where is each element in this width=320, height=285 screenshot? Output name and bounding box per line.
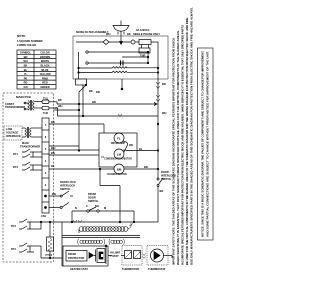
svg-text:BN: BN <box>129 143 133 147</box>
svg-text:BN: BN <box>52 192 56 196</box>
svg-text:SINGLE PHASE ONLY: SINGLE PHASE ONLY <box>133 32 160 36</box>
low voltage sub box <box>4 126 22 140</box>
svg-text:2.WIRE COLOR: 2.WIRE COLOR <box>17 43 36 47</box>
svg-text:BM: BM <box>117 167 122 171</box>
svg-text:1.SQUARE NUMBER:: 1.SQUARE NUMBER: <box>17 39 43 43</box>
NF internal wires <box>78 42 159 79</box>
TH2 <box>42 106 49 110</box>
svg-text:DRUM: DRUM <box>88 192 96 196</box>
svg-text:BK: BK <box>24 64 28 68</box>
svg-text:GREEN: GREEN <box>40 85 49 89</box>
svg-text:BN: BN <box>92 100 96 104</box>
svg-text:INCORPORATE SPECIAL FEATURES I: INCORPORATE SPECIAL FEATURES IMPORTANT F… <box>181 25 185 265</box>
svg-text:RY2: RY2 <box>13 165 19 169</box>
svg-text:BL: BL <box>24 68 28 72</box>
varistor TNR1 <box>139 40 151 45</box>
svg-text:WHITE: WHITE <box>41 59 50 63</box>
svg-text:NOISE FILTER ASSEMBLY: NOISE FILTER ASSEMBLY <box>76 30 109 34</box>
right bus <box>156 79 160 222</box>
svg-text:LM: LM <box>117 152 122 156</box>
svg-text:MAIN: MAIN <box>22 141 29 145</box>
svg-text:NOTE: NOTE <box>17 34 25 38</box>
svg-text:DOOR: DOOR <box>161 170 169 174</box>
svg-text:N: N <box>75 206 77 210</box>
svg-text:FL: FL <box>117 136 121 140</box>
svg-text:WH: WH <box>51 146 55 150</box>
svg-text:NOTICE: SINCE THIS IS A BASIC: NOTICE: SINCE THIS IS A BASIC SCHEMATIC … <box>201 51 205 237</box>
svg-text:WH: WH <box>58 104 62 108</box>
svg-text:DRUM: DRUM <box>68 252 76 256</box>
connector block below NF <box>54 52 123 151</box>
wires from TH to right <box>49 102 158 117</box>
svg-text:HEATER ASSY: HEATER ASSY <box>70 267 88 271</box>
pump motor box <box>147 246 172 266</box>
svg-text:BK: BK <box>58 98 62 102</box>
svg-text:AND SOME PARTIAL CONNECTIONS A: AND SOME PARTIAL CONNECTIONS ARE SUBJECT… <box>206 51 210 237</box>
wires from CN1 to right <box>49 124 114 209</box>
svg-text:BLACK: BLACK <box>40 64 49 68</box>
svg-text:RY3: RY3 <box>11 224 17 228</box>
lower bus wire <box>57 220 158 237</box>
svg-text:THERMOSTAT: THERMOSTAT <box>148 267 166 271</box>
wire from motor box bottom path <box>100 186 120 223</box>
label power rating <box>133 28 160 36</box>
svg-text:TRANSFORMER: TRANSFORMER <box>20 145 40 149</box>
svg-text:BE USED FOR THE CRITICAL COMPO: BE USED FOR THE CRITICAL COMPONENTS IN T… <box>185 17 189 265</box>
svg-text:BL: BL <box>51 164 55 168</box>
svg-text:PK: PK <box>24 76 28 80</box>
svg-text:INTERLOCK: INTERLOCK <box>60 184 75 188</box>
svg-text:BK: BK <box>51 120 55 124</box>
svg-text:IMPORTANT SAFETY NOTE: THE SHA: IMPORTANT SAFETY NOTE: THE SHADED AREAS … <box>172 37 176 265</box>
svg-text:LOW: LOW <box>6 127 13 131</box>
svg-text:BN: BN <box>160 189 164 193</box>
svg-text:HI-LIMIT: HI-LIMIT <box>110 251 121 255</box>
svg-text:THERMISTOR: THERMISTOR <box>122 267 139 271</box>
svg-text:TH2: TH2 <box>43 111 48 115</box>
svg-text:DRUM LAMP: DRUM LAMP <box>111 142 126 145</box>
PTC1 <box>47 237 54 259</box>
svg-text:BN: BN <box>51 151 55 155</box>
svg-text:BROWN: BROWN <box>40 55 50 59</box>
CN1 connector column <box>42 118 49 213</box>
MAIN PCB dashed box <box>3 93 54 262</box>
svg-text:BK: BK <box>89 89 93 93</box>
heater coil <box>79 227 128 232</box>
svg-text:PTC1: PTC1 <box>46 253 53 257</box>
door switch on bus <box>157 178 163 187</box>
hi-limit <box>110 251 121 259</box>
svg-text:BN: BN <box>24 55 28 59</box>
svg-text:T-STAT: T-STAT <box>110 254 119 258</box>
svg-text:INTERFACE: INTERFACE <box>6 134 21 138</box>
thermistor box <box>122 246 142 266</box>
svg-text:DOOR LOCK: DOOR LOCK <box>60 180 76 184</box>
svg-text:YL: YL <box>24 72 28 76</box>
wire color table <box>17 50 56 89</box>
shield double line <box>62 235 140 237</box>
svg-text:VOLTAGE: VOLTAGE <box>6 131 18 135</box>
svg-text:3A 120VAC: 3A 120VAC <box>136 28 150 32</box>
notice box <box>198 48 214 240</box>
svg-text:SWITCH: SWITCH <box>60 187 70 191</box>
svg-text:YELLOW: YELLOW <box>39 72 51 76</box>
right margin safety text <box>172 7 194 265</box>
svg-text:BLUE: BLUE <box>41 68 48 72</box>
svg-text:RY1: RY1 <box>13 152 19 156</box>
const transformer <box>5 102 25 109</box>
door switch row <box>72 207 134 222</box>
svg-text:CONDENSATION MOTOR: CONDENSATION MOTOR <box>104 158 132 161</box>
motor box <box>99 133 137 167</box>
svg-text:RED: RED <box>42 81 48 85</box>
svg-text:BN: BN <box>144 165 148 169</box>
BM motor <box>114 164 124 174</box>
svg-text:DOOR: DOOR <box>88 196 96 200</box>
svg-text:TRANSFORMER: TRANSFORMER <box>5 105 25 109</box>
heater assembly box <box>63 245 108 267</box>
svg-text:USE ONLY MANUFACTURER'S SPECIF: USE ONLY MANUFACTURER'S SPECIFIED PARTS … <box>190 7 194 265</box>
svg-text:WH: WH <box>162 111 166 115</box>
lamp <box>131 40 135 44</box>
svg-text:C: C <box>86 204 88 208</box>
note text block <box>17 34 43 47</box>
svg-text:PROTECTOR: PROTECTOR <box>68 256 84 260</box>
svg-text:WH: WH <box>23 59 27 63</box>
svg-text:NO: NO <box>95 204 99 208</box>
svg-text:CN1: CN1 <box>41 214 47 218</box>
svg-text:PINK: PINK <box>42 76 48 80</box>
power plug <box>113 21 129 45</box>
motor wires <box>99 141 158 186</box>
svg-text:SWITCH: SWITCH <box>88 199 98 203</box>
svg-text:SYMBOL: SYMBOL <box>20 51 32 55</box>
svg-text:MAIN PCB: MAIN PCB <box>16 95 32 99</box>
svg-text:YL: YL <box>101 155 105 159</box>
svg-text:M: M <box>104 206 106 210</box>
svg-text:BK: BK <box>127 32 131 36</box>
svg-text:BN: BN <box>162 82 166 86</box>
svg-text:COLOR: COLOR <box>40 51 49 55</box>
door interlock text/switch left <box>60 180 76 191</box>
fuse F1 <box>76 40 158 45</box>
svg-text:BN: BN <box>96 90 100 94</box>
svg-text:GN: GN <box>24 85 28 89</box>
noise filter assembly box <box>73 36 168 79</box>
LM motor <box>114 149 124 159</box>
svg-text:WHEN SERVICING IT IS ESSENTIAL: WHEN SERVICING IT IS ESSENTIAL THAT ONLY… <box>176 30 180 265</box>
small coils <box>78 239 125 245</box>
svg-text:BL: BL <box>139 147 143 151</box>
svg-text:BLOWER MOTOR: BLOWER MOTOR <box>107 174 127 176</box>
FL lamp <box>114 133 124 143</box>
svg-text:RD: RD <box>24 81 28 85</box>
connections bottom <box>62 237 146 266</box>
svg-text:RY4: RY4 <box>11 247 17 251</box>
main transformer <box>22 127 42 138</box>
